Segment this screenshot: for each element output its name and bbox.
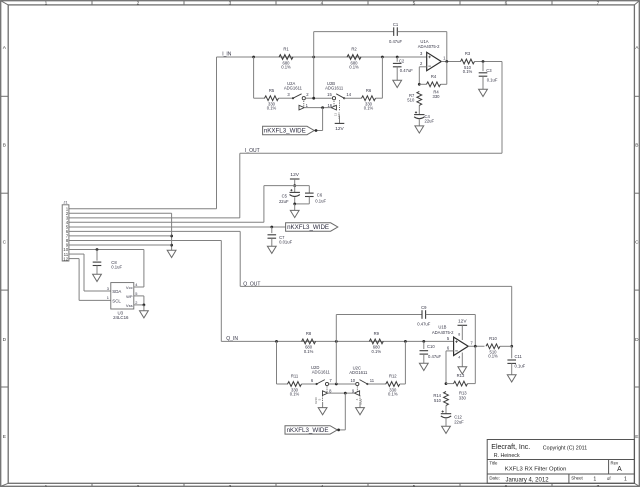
- wire R4 right stub: [441, 83, 447, 85]
- svg-text:510: 510: [407, 98, 415, 103]
- wire C9 to output: [474, 315, 476, 347]
- analog switch U2B: [325, 81, 352, 100]
- svg-text:3: 3: [107, 286, 109, 291]
- svg-text:10: 10: [350, 378, 355, 383]
- wire R11 to U2D pin 6: [302, 383, 317, 385]
- wire C2 to ground: [396, 67, 398, 81]
- wire C11 to ground: [511, 363, 513, 374]
- svg-text:0.1uF: 0.1uF: [515, 363, 526, 368]
- wire C1 top: [314, 31, 394, 33]
- ground C10: [419, 363, 428, 370]
- capacitor C1: [389, 22, 402, 44]
- svg-text:4: 4: [458, 356, 460, 360]
- svg-text:ADG1611: ADG1611: [284, 85, 303, 90]
- svg-text:5: 5: [135, 291, 137, 296]
- wire R3 to C3 node: [475, 61, 503, 63]
- capacitor C12 (polarized): [441, 410, 464, 424]
- svg-text:January 4, 2012: January 4, 2012: [506, 478, 550, 484]
- wire C12 to ground: [445, 419, 447, 427]
- wire R4 to output: [446, 62, 448, 85]
- svg-text:R6: R6: [366, 88, 372, 93]
- junction Q switch mid node: [335, 383, 338, 386]
- svg-text:C: C: [635, 240, 639, 246]
- analog switch U2C: [349, 366, 374, 386]
- svg-text:R13: R13: [457, 373, 465, 378]
- svg-text:E: E: [635, 434, 638, 440]
- junction C7: [270, 226, 273, 229]
- wire Q_OUT vertical from pin 6: [239, 231, 241, 286]
- svg-text:nKXFL3_WIDE: nKXFL3_WIDE: [287, 224, 329, 231]
- wire to ground: [294, 204, 296, 211]
- wire I_IN horizontal to J1 pin 1: [69, 208, 217, 210]
- junction feedback node: [418, 83, 421, 86]
- svg-text:C2: C2: [399, 58, 405, 63]
- svg-text:6: 6: [505, 0, 508, 6]
- svg-text:0.1%: 0.1%: [304, 349, 314, 354]
- svg-text:KXFL3 RX Filter Option: KXFL3 RX Filter Option: [505, 466, 567, 472]
- svg-text:22uF: 22uF: [279, 199, 289, 204]
- svg-text:R9: R9: [374, 331, 380, 336]
- wire U1B pin 6: [446, 350, 454, 352]
- control buffer U2A pin 1: [299, 100, 309, 110]
- wire U3 Vcc stub: [134, 286, 144, 288]
- svg-text:2: 2: [137, 0, 140, 6]
- svg-text:22uF: 22uF: [454, 420, 464, 425]
- svg-text:12V: 12V: [290, 172, 299, 178]
- wire 12V to J1 pin 4 vertical: [263, 186, 265, 223]
- wire R11 branch down: [276, 341, 278, 384]
- op-amp U1A: [418, 39, 442, 70]
- IC U3 24LC16: [111, 283, 134, 320]
- resistor R1: [279, 47, 293, 70]
- resistor R9: [369, 331, 383, 354]
- ground C11: [507, 375, 516, 382]
- svg-text:C11: C11: [515, 354, 523, 359]
- U2D GND pin 5: [314, 395, 323, 407]
- wire pin2 down: [418, 67, 420, 85]
- wire pin6 down: [445, 351, 447, 384]
- svg-text:C1: C1: [393, 22, 399, 27]
- svg-text:1: 1: [624, 477, 627, 483]
- power 12V (U2B VDD): [335, 123, 345, 132]
- wire Q control bus: [328, 392, 355, 394]
- svg-text:Title: Title: [489, 460, 498, 465]
- wire C8 to ground: [96, 266, 98, 275]
- U2B VDD pin 13: [333, 100, 341, 123]
- wire R13 to output: [474, 346, 476, 383]
- wire U2C to R12: [367, 383, 386, 385]
- wire I_OUT to J1 pin 3: [69, 217, 240, 219]
- title block: [487, 440, 634, 484]
- svg-text:14: 14: [346, 92, 351, 97]
- wire Q_IN vertical from pin 8: [220, 240, 222, 341]
- wire mid node to U2B: [314, 97, 332, 99]
- svg-text:C12: C12: [454, 414, 462, 419]
- svg-text:0.1uF: 0.1uF: [111, 264, 122, 269]
- capacitor C8: [93, 260, 123, 269]
- svg-text:12: 12: [63, 256, 68, 261]
- wire Q mid vertical: [335, 341, 337, 384]
- svg-text:22uF: 22uF: [425, 119, 435, 124]
- wire J1 pin 11: [69, 253, 84, 255]
- capacitor C11: [507, 354, 525, 369]
- svg-text:510: 510: [434, 398, 442, 403]
- resistor R2: [347, 47, 361, 70]
- resistor R7: [407, 91, 421, 105]
- wire R11 branch to resistor: [277, 383, 289, 385]
- svg-text:0.47uF: 0.47uF: [417, 322, 430, 327]
- wire R4 left stub: [419, 83, 426, 85]
- connector J1: [62, 199, 69, 261]
- svg-text:12V: 12V: [458, 318, 467, 324]
- wire C1 left vertical: [313, 32, 315, 99]
- svg-text:0.1uF: 0.1uF: [315, 198, 326, 203]
- junction U3 Vss: [143, 304, 146, 307]
- wire flag horizontal: [315, 130, 323, 132]
- wire C9 left vertical: [335, 315, 337, 342]
- svg-text:ADG1611: ADG1611: [312, 370, 331, 375]
- svg-text:5: 5: [413, 0, 416, 6]
- svg-text:R8: R8: [306, 331, 312, 336]
- wire C1 right: [398, 31, 447, 33]
- wire control bus: [304, 107, 331, 109]
- svg-text:0.47uF: 0.47uF: [428, 354, 441, 359]
- svg-text:R4: R4: [431, 74, 437, 79]
- wire I_IN vertical from J1 pin 1: [216, 57, 218, 209]
- wire I_OUT vertical: [239, 153, 241, 218]
- junction flag tip (Q): [337, 429, 340, 432]
- svg-text:E: E: [3, 434, 6, 440]
- net label nKXFL3_WIDE (Q section): [285, 426, 337, 434]
- resistor R4: [427, 74, 441, 87]
- svg-text:ADG1611: ADG1611: [349, 370, 368, 375]
- wire 12V down: [294, 179, 296, 186]
- wire R5 to U2A pin 3: [279, 97, 294, 99]
- svg-text:R3: R3: [465, 51, 471, 56]
- svg-text:ADA4075-2: ADA4075-2: [418, 44, 440, 49]
- svg-text:R12: R12: [389, 374, 397, 379]
- svg-text:nKXFL3_WIDE: nKXFL3_WIDE: [264, 128, 306, 135]
- ground C2: [393, 80, 402, 87]
- wire C5 bottom: [294, 197, 296, 204]
- svg-text:0.1uF: 0.1uF: [487, 77, 498, 82]
- wire SCL: [79, 299, 111, 301]
- svg-text:0.1%: 0.1%: [488, 354, 498, 359]
- svg-text:12V: 12V: [335, 126, 344, 132]
- junction R12 top: [404, 340, 407, 343]
- capacitor C2: [393, 58, 413, 73]
- svg-text:Vss: Vss: [126, 303, 133, 308]
- ground J1 pins: [167, 250, 176, 257]
- junction pin 7 ground: [170, 235, 173, 238]
- resistor R10: [486, 336, 500, 359]
- svg-text:R. Heineck: R. Heineck: [494, 453, 520, 459]
- svg-text:8: 8: [458, 332, 460, 336]
- U3 pin number labels: [107, 282, 138, 305]
- junction 12V node: [293, 184, 296, 187]
- svg-text:0.1%: 0.1%: [364, 106, 374, 111]
- wire U2D to mid node: [329, 383, 337, 385]
- J1 pin numbers: [63, 206, 68, 261]
- ground C8: [93, 274, 102, 281]
- svg-text:0.1%: 0.1%: [388, 391, 398, 396]
- svg-text:ADA4075-2: ADA4075-2: [432, 330, 454, 335]
- wire J1 pin 7: [69, 235, 172, 237]
- svg-text:R5: R5: [269, 88, 275, 93]
- wire C4 to ground: [418, 120, 420, 126]
- wire U3 WP to Vss: [143, 296, 145, 305]
- wire mid node to U2C: [336, 383, 355, 385]
- svg-text:C5: C5: [282, 193, 288, 198]
- svg-text:3: 3: [229, 0, 232, 6]
- junction pin 9 ground: [170, 244, 173, 247]
- svg-text:C6: C6: [317, 193, 323, 198]
- svg-text:0.1%: 0.1%: [281, 64, 291, 69]
- svg-text:0.1%: 0.1%: [267, 106, 277, 111]
- svg-text:R2: R2: [351, 47, 357, 52]
- svg-text:1: 1: [107, 295, 109, 300]
- ground C7: [267, 246, 276, 253]
- wire C10 down: [423, 341, 425, 349]
- svg-text:7: 7: [597, 0, 600, 6]
- wire C2 down: [396, 57, 398, 62]
- ground C5/C6: [290, 210, 299, 217]
- svg-text:A: A: [617, 466, 622, 473]
- wire C5 top: [294, 186, 296, 193]
- wire J1 pin 2 to ground rail: [69, 212, 172, 214]
- R4 labels: [433, 89, 441, 99]
- wire C10 to ground: [423, 354, 425, 363]
- junction R6 top: [381, 56, 384, 59]
- wire output right vertical: [501, 62, 503, 154]
- junction C2 node: [396, 56, 399, 59]
- wire R14 to C12: [445, 406, 447, 414]
- svg-text:C10: C10: [427, 344, 435, 349]
- junction R10 right / Q_OUT: [510, 345, 513, 348]
- wire C1 to output: [446, 32, 448, 62]
- power 12V (C5/C6): [290, 172, 300, 179]
- wire C6 top: [308, 186, 310, 194]
- svg-text:R10: R10: [489, 336, 497, 341]
- title block title row: [489, 460, 622, 473]
- svg-text:0.47uF: 0.47uF: [389, 39, 402, 44]
- wire pin 11 vertical: [83, 254, 85, 291]
- wire 12V to U1B: [461, 325, 463, 340]
- control buffer U2D pin 8: [323, 386, 333, 396]
- junction Q mid node: [335, 340, 338, 343]
- U2C VSS pin 4: [355, 395, 363, 407]
- svg-text:Elecraft, Inc.: Elecraft, Inc.: [491, 444, 530, 451]
- wire R5 branch to resistor: [254, 97, 265, 99]
- svg-text:C9: C9: [421, 305, 427, 310]
- svg-text:Date:: Date:: [489, 476, 500, 481]
- svg-text:4: 4: [321, 0, 324, 6]
- wire C8 down: [96, 250, 98, 261]
- wire 12V to J1 pin 4: [69, 221, 264, 223]
- svg-text:B: B: [3, 142, 6, 148]
- wire J1 pin 6: [69, 230, 240, 232]
- wire R13 right stub: [468, 383, 476, 385]
- junction C3 node: [482, 60, 485, 63]
- wire C7 down: [271, 227, 273, 233]
- svg-text:R11: R11: [291, 374, 299, 379]
- wire U1A pin 2: [419, 66, 426, 68]
- resistor R3: [461, 51, 475, 74]
- svg-text:24LC16: 24LC16: [113, 315, 129, 320]
- wire R12 vertical up: [404, 341, 406, 384]
- resistor R14: [433, 392, 448, 406]
- svg-text:11: 11: [370, 378, 375, 383]
- resistor R13: [454, 373, 468, 386]
- wire Q control to flag: [344, 393, 346, 430]
- wire U3 WP stub: [134, 295, 144, 297]
- wire U2B to R6: [344, 97, 361, 99]
- svg-text:Rev: Rev: [611, 460, 619, 465]
- svg-text:1: 1: [45, 0, 48, 6]
- ground U3: [140, 311, 149, 318]
- wire control to flag: [322, 108, 324, 131]
- svg-text:16: 16: [327, 103, 332, 108]
- wire I_IN main: [217, 56, 427, 58]
- wire pin 12 vertical: [78, 259, 80, 301]
- junction switch mid node: [312, 97, 315, 100]
- svg-text:0.01uF: 0.01uF: [279, 239, 292, 244]
- wire Q_OUT horizontal: [240, 285, 512, 287]
- junction flag tip (I): [315, 129, 318, 132]
- ground C3: [479, 89, 488, 96]
- capacitor C4 (polarized): [414, 111, 434, 123]
- wire U3 Vss stub: [134, 304, 144, 306]
- svg-text:2: 2: [135, 300, 137, 305]
- capacitor C7: [268, 235, 293, 245]
- svg-text:0.1%: 0.1%: [349, 64, 359, 69]
- svg-text:D: D: [3, 337, 7, 343]
- svg-text:15: 15: [327, 92, 332, 97]
- resistor R5: [265, 88, 279, 111]
- wire C5-C6 join: [295, 203, 310, 205]
- svg-text:330: 330: [433, 94, 441, 99]
- junction C10 node: [422, 340, 425, 343]
- title block date row: [489, 476, 627, 484]
- wire Q_OUT right vertical: [511, 286, 513, 346]
- capacitor C3: [479, 68, 498, 82]
- ground U2C pin 4: [356, 408, 365, 415]
- svg-text:B: B: [635, 142, 638, 148]
- wire C6 bottom: [308, 197, 310, 204]
- svg-text:D: D: [635, 337, 639, 343]
- wire Q_IN main: [221, 340, 453, 342]
- resistor R6: [362, 88, 376, 111]
- svg-text:WP: WP: [126, 294, 133, 299]
- analog switch U2A: [284, 81, 309, 100]
- wire U1B output: [468, 345, 484, 347]
- svg-text:Copyright (C) 2011: Copyright (C) 2011: [543, 445, 587, 451]
- junction C5/C6 ground: [293, 203, 296, 206]
- svg-text:U1B: U1B: [438, 325, 446, 330]
- capacitor C5 (polarized): [279, 189, 300, 204]
- wire R10 to Q_OUT node: [500, 345, 512, 347]
- svg-text:SCL: SCL: [112, 298, 121, 303]
- ground U2D pin 5: [318, 408, 327, 415]
- wire ground rail vertical: [171, 213, 173, 250]
- wire Q flag horizontal: [337, 429, 345, 431]
- wire 12V rail: [264, 185, 309, 187]
- wire U3 ground stub: [143, 305, 145, 311]
- power 12V (U1B pin 8): [458, 318, 468, 325]
- wire R6 to vertical: [376, 97, 383, 99]
- junction Q_IN / R11 branch: [275, 340, 278, 343]
- op-amp U1B: [432, 325, 468, 356]
- svg-text:0.47uF: 0.47uF: [400, 68, 413, 73]
- svg-text:ADG1611: ADG1611: [325, 85, 344, 90]
- svg-text:0.1%: 0.1%: [290, 391, 300, 396]
- wire Vcc vertical: [143, 250, 145, 287]
- svg-text:R1: R1: [283, 47, 289, 52]
- junction Q output: [474, 345, 477, 348]
- wire R5 branch down: [253, 57, 255, 98]
- wire U1A output: [441, 61, 460, 63]
- wire J1 pin 5 net: [69, 226, 286, 228]
- R13 labels: [459, 391, 468, 401]
- ground U1B pin 4: [458, 367, 467, 374]
- svg-text:Sheet: Sheet: [571, 476, 583, 481]
- wire J1 pin 12: [69, 258, 79, 260]
- capacitor C10: [420, 344, 442, 359]
- junction output / C1: [445, 60, 448, 63]
- wire C7 to ground: [271, 238, 273, 246]
- junction I_IN / R5 branch: [252, 56, 255, 59]
- ground C4: [415, 126, 424, 133]
- wire R6 vertical up: [381, 57, 383, 98]
- capacitor C9: [417, 305, 430, 327]
- wire R7 to C4: [418, 105, 420, 114]
- svg-text:C3: C3: [486, 68, 492, 73]
- wire C3 down: [482, 62, 484, 72]
- svg-text:Vcc: Vcc: [126, 285, 133, 290]
- control buffer U2B pin 16: [327, 100, 336, 110]
- wire SDA: [84, 290, 111, 292]
- wire U1B pin 4 down: [461, 353, 463, 367]
- svg-text:330: 330: [459, 395, 467, 400]
- wire J1 pin 8: [69, 239, 221, 241]
- wire C3 to ground: [482, 76, 484, 89]
- wire U2A to mid node: [305, 97, 313, 99]
- resistor R11: [288, 374, 302, 397]
- svg-text:0.1%: 0.1%: [463, 69, 473, 74]
- junction Q feedback node: [445, 382, 448, 385]
- svg-text:SDA: SDA: [112, 289, 121, 294]
- net label nKXFL3_WIDE (I section): [263, 126, 315, 134]
- resistor R8: [302, 331, 316, 354]
- svg-text:0.1%: 0.1%: [372, 349, 382, 354]
- junction Q control bus: [344, 392, 347, 395]
- analog switch U2D: [311, 365, 333, 386]
- junction mid node C1: [312, 56, 315, 59]
- junction control bus: [321, 106, 324, 109]
- wire C9 top: [336, 314, 422, 316]
- net label nKXFL3_WIDE (mid): [286, 223, 338, 231]
- svg-text:nKXFL3_WIDE: nKXFL3_WIDE: [287, 427, 329, 434]
- ground C12: [442, 426, 451, 433]
- wire R12 to vertical: [400, 383, 406, 385]
- capacitor C6: [305, 193, 326, 204]
- wire C11 down: [511, 346, 513, 358]
- junction C8: [96, 248, 99, 251]
- title block text Elecraft: [491, 444, 587, 459]
- control buffer U2C pin 9: [352, 386, 360, 396]
- svg-text:C: C: [3, 240, 7, 246]
- svg-text:1: 1: [593, 477, 596, 483]
